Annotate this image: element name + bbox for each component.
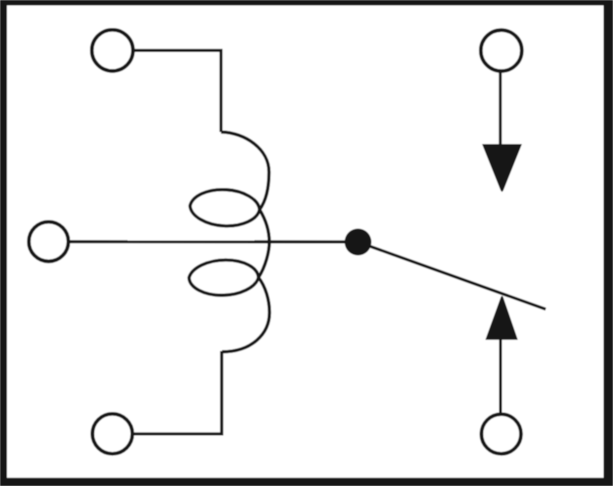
wire coil bottom to T2 [134, 351, 222, 434]
pivot node junction dot [345, 229, 372, 256]
arrowhead NC contact (down) [482, 144, 522, 192]
terminal circle T5 (NO contact, lower-right) [481, 414, 521, 454]
wire T3 to pivot node [69, 240, 359, 243]
wire T1 to coil top [133, 50, 221, 132]
wire stem of NC arrow [499, 73, 502, 147]
terminal circle T3 (common pole, middle-left) [29, 222, 69, 262]
switch arm wire [358, 242, 546, 309]
arrowhead NO contact (up) [485, 296, 517, 340]
wire stem of NO arrow [499, 339, 502, 414]
terminal circle T4 (NC contact, upper-right) [481, 30, 522, 71]
terminal circle T1 (coil top, upper-left) [92, 30, 133, 71]
inductor coil L1 [189, 132, 270, 352]
terminal circle T2 (coil bottom, lower-left) [92, 414, 132, 454]
